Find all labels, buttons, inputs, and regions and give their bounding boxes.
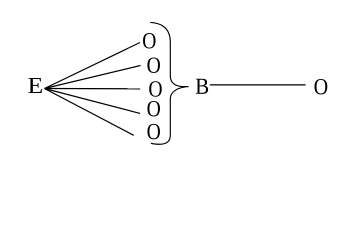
node O2 bbox=[147, 57, 160, 72]
node O5 bbox=[147, 124, 160, 139]
node B (target letter) bbox=[196, 79, 208, 94]
wire E to O4 bbox=[45, 89, 141, 114]
wire E to O1 bbox=[45, 43, 141, 89]
wire B to O bbox=[210, 84, 306, 86]
node O4 bbox=[147, 101, 160, 116]
wire E to O5 bbox=[45, 89, 134, 136]
wire E to O2 bbox=[45, 66, 141, 89]
wire E to O3 bbox=[45, 88, 141, 90]
node O3 bbox=[149, 81, 162, 96]
node O right bbox=[315, 79, 328, 94]
node O1 bbox=[143, 33, 156, 48]
node E (source letter) bbox=[28, 78, 42, 93]
brace } grouping O1-O5 bbox=[150, 22, 188, 144]
